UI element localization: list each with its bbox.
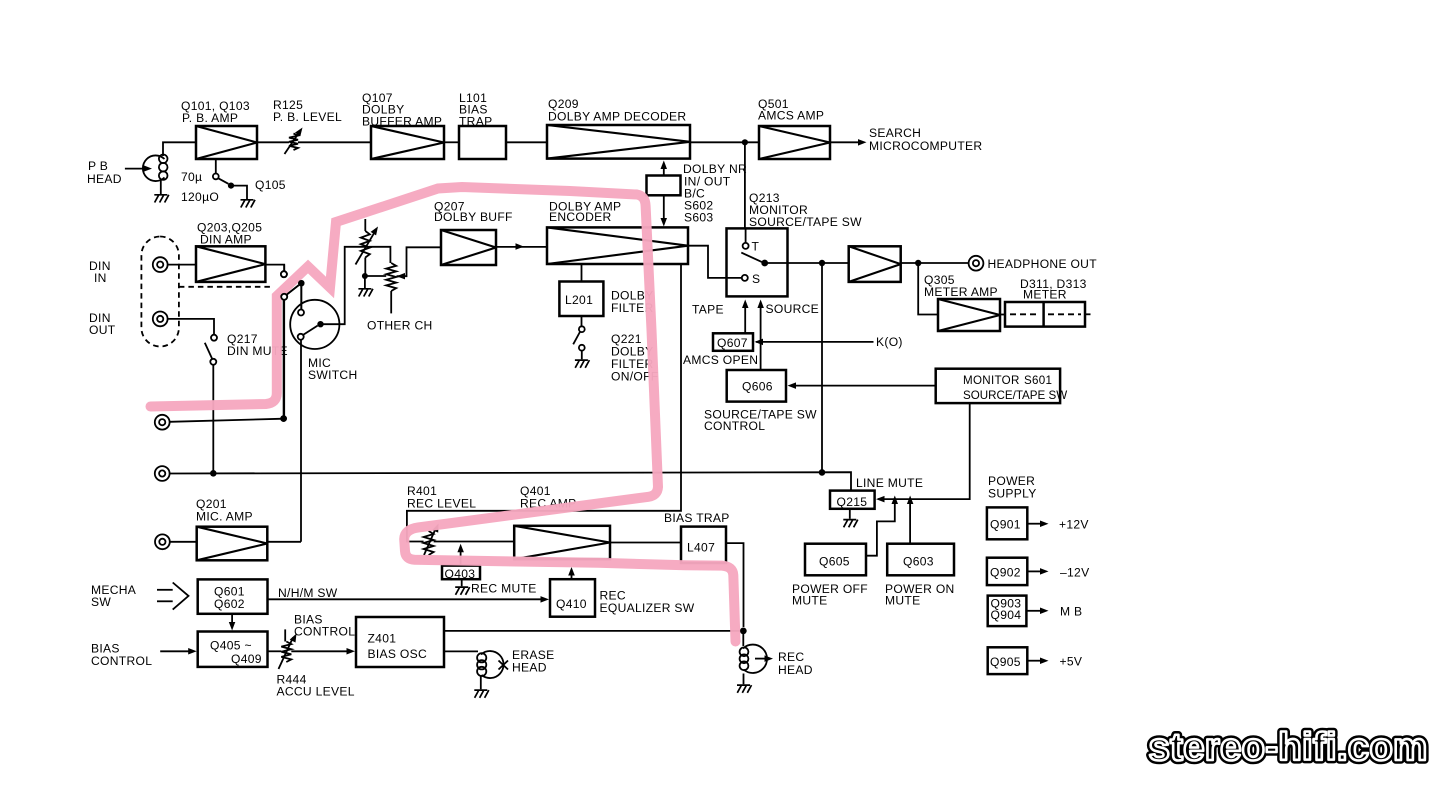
svg-text:Q405 ~: Q405 ~ [210,639,252,653]
svg-text:+12V: +12V [1059,518,1089,532]
svg-text:CONTROL: CONTROL [704,419,765,433]
svg-text:DIN AMP: DIN AMP [200,233,252,247]
svg-text:OUT: OUT [89,323,116,337]
svg-text:EQUALIZER SW: EQUALIZER SW [600,601,695,615]
svg-text:S603: S603 [684,211,713,225]
svg-text:N/H/M SW: N/H/M SW [278,586,338,600]
svg-text:DOLBY BUFF: DOLBY BUFF [434,210,513,224]
svg-text:stereo-hifi.com: stereo-hifi.com [1149,726,1428,769]
svg-text:SWITCH: SWITCH [308,368,358,382]
svg-text:HEADPHONE OUT: HEADPHONE OUT [988,257,1098,271]
svg-text:S601: S601 [1024,374,1052,387]
svg-text:L201: L201 [565,293,593,307]
svg-text:Q403: Q403 [445,567,476,581]
svg-text:P. B. AMP: P. B. AMP [182,111,238,125]
svg-text:Q410: Q410 [556,597,587,611]
svg-text:LINE MUTE: LINE MUTE [856,476,923,490]
svg-text:OTHER CH: OTHER CH [367,319,433,333]
svg-text:SOURCE: SOURCE [766,302,820,316]
svg-text:Q105: Q105 [255,178,286,192]
svg-text:REC LEVEL: REC LEVEL [407,497,476,511]
svg-text:METER AMP: METER AMP [924,285,998,299]
svg-text:Q606: Q606 [742,380,773,394]
svg-text:–12V: –12V [1060,566,1090,580]
svg-text:MICROCOMPUTER: MICROCOMPUTER [869,139,982,153]
svg-text:METER: METER [1023,288,1067,302]
svg-text:Q215: Q215 [837,495,868,509]
svg-text:CONTROL: CONTROL [91,654,152,668]
svg-text:Q605: Q605 [819,555,850,569]
svg-text:70µ: 70µ [181,170,202,184]
svg-text:120µO: 120µO [181,190,219,204]
svg-text:AMCS OPEN: AMCS OPEN [683,353,758,367]
svg-text:Q901: Q901 [990,518,1021,532]
svg-text:SW: SW [91,595,111,609]
svg-text:ENCODER: ENCODER [549,210,612,224]
svg-text:REC: REC [778,650,804,664]
svg-text:IN: IN [94,271,107,285]
svg-text:SEARCH: SEARCH [869,126,921,140]
svg-text:+5V: +5V [1060,655,1083,669]
svg-text:SOURCE/TAPE SW: SOURCE/TAPE SW [963,389,1067,402]
svg-text:TRAP: TRAP [459,115,492,129]
svg-text:SUPPLY: SUPPLY [988,487,1037,501]
svg-text:Q904: Q904 [991,608,1022,622]
svg-text:MONITOR: MONITOR [963,374,1020,387]
svg-text:S: S [752,272,760,286]
svg-text:MUTE: MUTE [792,594,827,608]
svg-text:TAPE: TAPE [692,303,724,317]
svg-text:P B: P B [88,159,108,173]
svg-text:HEAD: HEAD [778,663,813,677]
svg-text:MUTE: MUTE [885,594,920,608]
svg-text:Q902: Q902 [990,566,1021,580]
svg-text:BIAS TRAP: BIAS TRAP [664,511,730,525]
svg-text:Q607: Q607 [717,336,748,350]
svg-text:CONTROL: CONTROL [294,625,355,639]
svg-text:MIC. AMP: MIC. AMP [196,510,253,524]
svg-text:REC MUTE: REC MUTE [471,582,537,596]
svg-text:HEAD: HEAD [512,661,547,675]
svg-text:T: T [752,240,760,254]
svg-text:M B: M B [1060,605,1082,619]
svg-text:Q603: Q603 [903,555,934,569]
svg-text:SOURCE/TAPE SW: SOURCE/TAPE SW [749,215,862,229]
svg-text:BUFFER AMP: BUFFER AMP [362,115,442,129]
svg-text:P. B. LEVEL: P. B. LEVEL [273,110,342,124]
svg-text:AMCS AMP: AMCS AMP [758,109,824,123]
svg-text:HEAD: HEAD [87,172,122,186]
svg-text:DOLBY AMP DECODER: DOLBY AMP DECODER [548,110,686,124]
svg-text:Z401: Z401 [368,632,397,646]
svg-text:L407: L407 [687,541,715,555]
svg-text:K(O): K(O) [876,335,903,349]
svg-text:ACCU LEVEL: ACCU LEVEL [277,685,355,699]
svg-text:Q602: Q602 [214,597,245,611]
svg-text:Q905: Q905 [990,655,1021,669]
svg-text:Q409: Q409 [231,652,262,666]
svg-text:BIAS OSC: BIAS OSC [368,647,428,661]
